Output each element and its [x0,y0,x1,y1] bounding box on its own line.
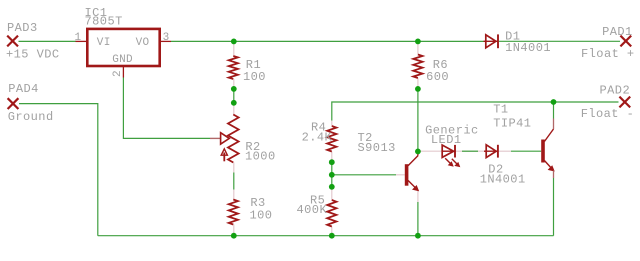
svg-text:PAD4: PAD4 [8,82,39,96]
svg-text:PAD2: PAD2 [600,84,631,98]
svg-text:+15 VDC: +15 VDC [6,48,60,62]
wire IC1 GND to R2 wiper [123,78,210,139]
diode D1 [484,34,499,48]
pad PAD3 [7,36,18,47]
wire top rail IC1 VO to D1 anode [171,40,484,42]
svg-text:LED1: LED1 [431,133,462,147]
wire T2 base [332,174,396,176]
node T2 base pin [396,174,405,176]
resistor R5 [327,200,336,227]
wire T1 emitter to ground rail [553,178,555,236]
svg-text:600: 600 [426,70,449,84]
svg-text:2.4K: 2.4K [302,131,333,145]
node LED1 anode pin [418,150,442,152]
svg-text:TIP41: TIP41 [493,117,531,131]
junction LED1 T2 collector [415,149,421,155]
junction top rail R6 [415,39,421,45]
node R5 bottom pin [331,227,333,236]
svg-text:2: 2 [112,70,124,77]
svg-text:PAD3: PAD3 [7,21,38,35]
junction R5 top [329,184,335,190]
node T2 emitter pin [417,190,419,202]
pin 2 of IC1 GND [122,67,124,78]
wire R4 top to Float- rail [332,102,619,121]
node R5 top pin [331,187,333,200]
node R1 bottom pin [233,79,235,89]
svg-text:S9013: S9013 [358,141,396,155]
junction top rail R1 [231,39,237,45]
resistor R1 [229,56,238,79]
wire LED1 cathode to D2 anode [456,150,486,152]
svg-text:3: 3 [163,32,170,44]
svg-text:Float +: Float + [581,47,635,61]
resistor R3 [229,200,238,225]
svg-text:VI: VI [97,37,111,49]
transistor T2 S9013 [405,151,419,190]
LED LED1 [442,145,460,167]
svg-text:1N4001: 1N4001 [505,41,551,55]
junction R4 bottom [329,159,335,165]
node R2 top pin [233,103,235,115]
junction T1 collector Float- [551,99,557,105]
svg-text:100: 100 [243,70,266,84]
wire PAD4 to bottom rail corner [19,104,98,236]
node R4 bottom pin [331,152,333,163]
junction ground rail T2 emitter [415,233,421,239]
svg-text:1000: 1000 [245,149,276,163]
node R6 bottom pin [417,78,419,89]
svg-text:1N4001: 1N4001 [480,173,526,187]
svg-text:VO: VO [136,37,150,49]
trimmer resistor R2 [210,115,239,163]
node R3 top pin [233,190,235,200]
junction R6 bottom [415,86,421,92]
wire R6 to T2 collector junction [417,89,419,151]
node R4 top pin [331,121,333,127]
wire D2 to T1 base [511,150,541,152]
svg-text:Float -: Float - [581,107,635,121]
svg-text:1: 1 [75,32,82,44]
junction T2 base branch [329,172,335,178]
wire bottom ground rail [98,235,554,237]
wire T2 emitter to ground rail [417,202,419,236]
pad PAD1 [620,36,631,47]
svg-text:T1: T1 [493,103,508,117]
node D2 cathode pin [498,150,511,152]
wire D1 cathode to PAD1 [499,40,620,42]
node R2 bottom pin [233,163,235,173]
junction ground rail R5 [329,233,335,239]
wire R1 to R2 [233,89,235,103]
svg-text:Ground: Ground [8,110,54,124]
junction R2 top [231,100,237,106]
node R3 bottom pin [233,225,235,236]
svg-text:GND: GND [112,54,133,66]
transistor T1 TIP41 [541,119,554,179]
svg-text:7805T: 7805T [85,15,123,29]
junction ground rail R3 [231,233,237,239]
svg-text:100: 100 [250,209,273,223]
wire top rail PAD3 to IC1 VI [19,40,77,42]
svg-text:400K: 400K [297,203,328,217]
node R6 top pin [417,41,419,54]
resistor R4 [327,126,336,152]
pin 1 of IC1 [76,40,87,42]
wire R4 to R5 and T2 base junction [331,162,333,187]
resistor R6 [413,55,422,79]
wire R2 to R3 [233,173,235,190]
pad PAD4 [8,98,19,109]
wire T1 collector to Float- junction [553,102,555,119]
diode D2 [484,145,498,158]
voltage regulator IC1 7805T box [87,29,159,66]
junction R1 bottom [231,86,237,92]
node R1 top pin [233,41,235,56]
pin 3 of IC1 [161,40,172,42]
svg-text:PAD1: PAD1 [602,25,633,39]
pad PAD2 [619,97,630,108]
